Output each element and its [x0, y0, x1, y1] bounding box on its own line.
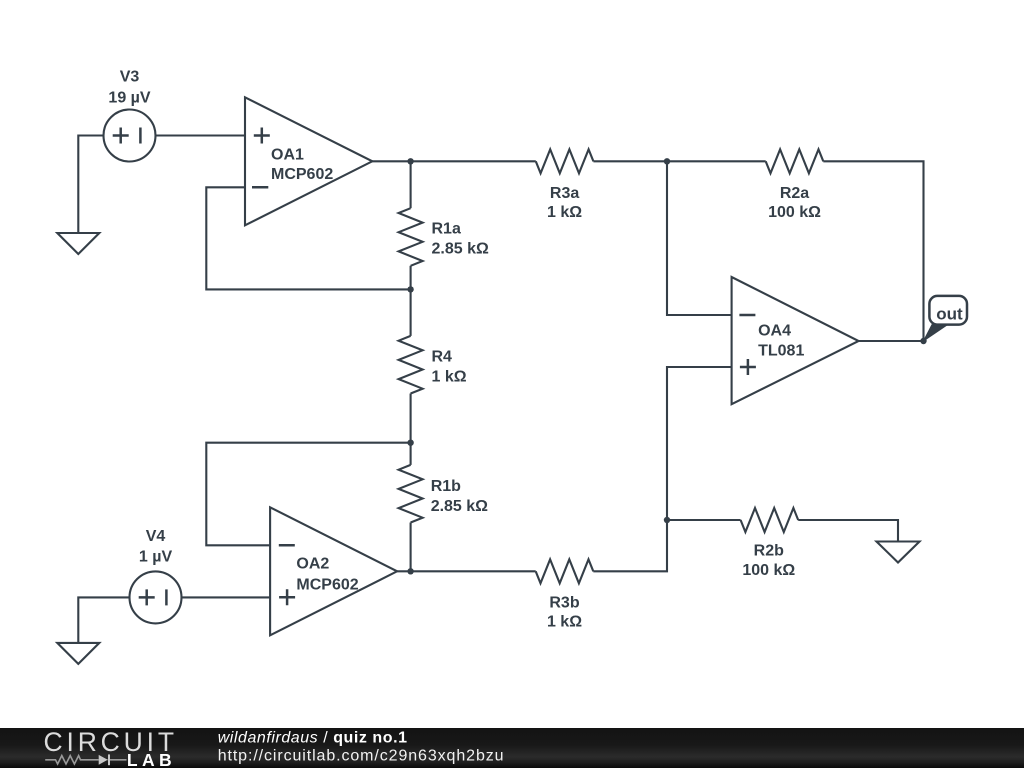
voltage source V4	[130, 571, 182, 623]
node F: R3b/R2b junction	[664, 517, 670, 523]
svg-text:1 kΩ: 1 kΩ	[547, 614, 582, 631]
resistor R4	[399, 336, 423, 394]
svg-text:wildanfirdaus / quiz no.1: wildanfirdaus / quiz no.1	[218, 730, 408, 747]
svg-text:100 kΩ: 100 kΩ	[768, 204, 821, 221]
svg-text:R2b: R2b	[754, 542, 784, 559]
svg-text:MCP602: MCP602	[296, 576, 358, 593]
footer bar	[0, 728, 1024, 768]
wire R2a to OA4 output node	[823, 161, 923, 341]
svg-text:2.85 kΩ: 2.85 kΩ	[431, 498, 488, 515]
resistor R1b	[399, 465, 423, 523]
wire R4 bottom	[410, 394, 412, 443]
node B: R3a/R2a junction	[664, 158, 670, 164]
wire node to R1b	[410, 443, 412, 465]
logo diode	[99, 755, 108, 765]
ground G3	[877, 542, 920, 563]
wire OA4 plus to node	[667, 367, 732, 520]
svg-text:OA2: OA2	[296, 556, 329, 573]
node D: R4/R1b junction	[407, 440, 413, 446]
svg-text:R3a: R3a	[550, 185, 579, 202]
wire OA4 output	[859, 340, 924, 342]
ground G1	[57, 233, 99, 254]
svg-text:TL081: TL081	[758, 343, 804, 360]
svg-text:LAB: LAB	[127, 750, 176, 768]
svg-text:out: out	[936, 304, 963, 323]
wire node to R2b	[667, 519, 741, 521]
svg-text:MCP602: MCP602	[271, 166, 333, 183]
svg-text:OA1: OA1	[271, 147, 304, 164]
svg-text:100 kΩ: 100 kΩ	[742, 562, 795, 579]
node label out: pointer wedge	[924, 325, 948, 341]
wire V4 right to OA2 plus	[182, 596, 271, 598]
wire V3 left down to ground	[78, 136, 103, 234]
wire V4 left down to ground	[78, 597, 129, 643]
svg-text:R2a: R2a	[780, 185, 809, 202]
op-amp OA4	[732, 277, 859, 404]
wire R3b up to node	[593, 520, 667, 571]
svg-text:V3: V3	[120, 69, 140, 86]
svg-text:V4: V4	[146, 528, 166, 545]
wire node to OA4 minus	[667, 161, 732, 315]
svg-text:1 kΩ: 1 kΩ	[547, 204, 582, 221]
resistor R2b	[741, 508, 799, 532]
svg-text:1 kΩ: 1 kΩ	[432, 368, 467, 385]
node label out: flag box	[929, 296, 967, 325]
svg-text:1 µV: 1 µV	[139, 549, 173, 566]
svg-text:R1b: R1b	[431, 478, 461, 495]
wire R2b to ground	[798, 520, 898, 542]
resistor R3a	[536, 149, 594, 173]
wire R1a bottom	[410, 266, 412, 290]
wire R3a to R2a	[593, 160, 765, 162]
wire node to R1a	[410, 161, 412, 208]
wire OA1 minus feedback	[206, 187, 410, 289]
wire OA1 output to R3a	[372, 160, 536, 162]
wire OA2 output to R3b	[397, 570, 536, 572]
node E: OA2 out	[407, 568, 413, 574]
svg-text:R3b: R3b	[549, 595, 579, 612]
node C: R1a/R4 junction	[407, 286, 413, 292]
svg-text:http://circuitlab.com/c29n63xq: http://circuitlab.com/c29n63xqh2bzu	[218, 748, 505, 765]
svg-text:R4: R4	[432, 348, 453, 365]
voltage source V3	[104, 110, 156, 162]
svg-text:R1a: R1a	[432, 221, 461, 238]
svg-text:OA4: OA4	[758, 323, 791, 340]
resistor R3b	[536, 559, 594, 583]
wire R1b bottom	[410, 523, 412, 572]
logo resistor-diode line	[45, 756, 126, 764]
resistor R1a	[399, 208, 423, 266]
node A: OA1 out	[407, 158, 413, 164]
svg-text:19 µV: 19 µV	[108, 89, 150, 106]
op-amp OA2	[270, 507, 397, 635]
svg-text:2.85 kΩ: 2.85 kΩ	[432, 241, 489, 258]
wire node to R4	[410, 289, 412, 336]
node G: OA4 out	[920, 338, 926, 344]
wire OA2 minus feedback	[206, 443, 410, 546]
ground G2	[57, 643, 99, 664]
op-amp OA1	[245, 97, 372, 225]
resistor R2a	[766, 149, 824, 173]
wire V3 right to OA1 plus	[156, 134, 246, 136]
